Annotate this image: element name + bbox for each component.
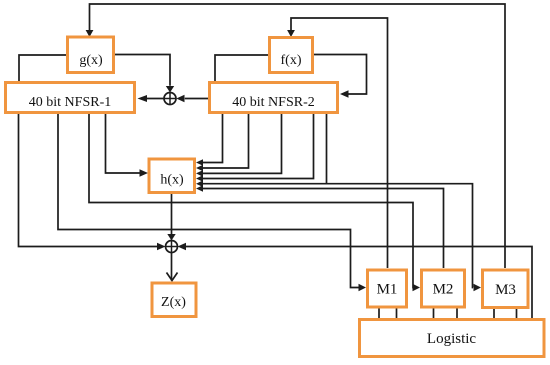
box M3 [483, 270, 529, 308]
arrowhead into h(x) right 1 [196, 159, 203, 166]
arrowhead into h(x) right 4 [196, 175, 203, 182]
svg-text:M2: M2 [433, 282, 454, 298]
wire g(x) left to NFSR-1 top [19, 55, 67, 81]
wire M1 leg 1 [378, 308, 380, 318]
arrowhead into XOR2 left [157, 243, 166, 250]
XOR1 plus [164, 93, 176, 105]
arrowhead into NFSR-2 right [340, 90, 349, 97]
wire XOR1 to NFSR-1 right [147, 98, 165, 100]
arrowhead into M1 left [359, 284, 367, 291]
XOR1 circle [164, 93, 176, 105]
arrowhead into h(x) right 2 [196, 165, 203, 172]
arrowhead into f(x) top [287, 30, 295, 37]
arrowhead into h(x) left [140, 169, 149, 176]
arrowhead open V into Z(x) top [167, 273, 178, 281]
wire XOR2 to Z(x) top [171, 253, 173, 281]
box M2 [422, 270, 465, 307]
wire f(x) left to NFSR-2 top [215, 55, 268, 81]
svg-text:Logistic: Logistic [427, 331, 477, 347]
svg-text:40 bit NFSR-1: 40 bit NFSR-1 [29, 95, 111, 110]
wire NFSR-2 tap 5 to h(x) and M3 left [202, 114, 327, 184]
box Z(x) [152, 283, 196, 317]
wire second loop M1 to f(x) [291, 18, 388, 268]
box 40 bit NFSR-2 [210, 83, 338, 113]
box f(x) [270, 38, 313, 73]
wire M3 leg 2 [516, 309, 518, 318]
wire top loop M3 to g(x) [90, 4, 506, 268]
box h(x) [149, 159, 195, 193]
wire f(x) right to NFSR-2 right [313, 55, 367, 95]
arrowhead into g(x) top [86, 30, 94, 37]
wire h(x) bottom to XOR2 top [171, 194, 173, 235]
arrowhead into M2 left [413, 284, 421, 291]
box Logistic [360, 320, 545, 357]
wire h(x) input line to M2 top [202, 189, 444, 269]
box 40 bit NFSR-1 [6, 83, 135, 113]
wire M2 leg 1 [433, 308, 435, 318]
arrowhead into XOR2 right [178, 243, 187, 250]
wire NFSR-2 tap 2 to h(x) [202, 114, 249, 168]
XOR2 plus [166, 241, 178, 253]
wire NFSR-1 tap 1 to XOR2 left [19, 114, 158, 247]
arrowhead into XOR1 right [176, 95, 184, 102]
arrowhead into h(x) right 6 [196, 185, 203, 192]
arrowhead into XOR2 top [167, 234, 175, 241]
arrowhead into h(x) right 3 [196, 170, 203, 177]
svg-text:M3: M3 [495, 282, 516, 298]
svg-text:h(x): h(x) [160, 173, 184, 188]
wire NFSR-2 tap 4 to h(x) [202, 114, 314, 179]
wire NFSR-2 tap 1 to h(x) [202, 114, 223, 163]
wire g(x) right to XOR1 top [114, 55, 170, 86]
svg-text:M1: M1 [377, 282, 398, 298]
wire Logistic to XOR2 right [186, 247, 533, 319]
wire M1 leg 2 [396, 308, 398, 318]
svg-text:g(x): g(x) [79, 53, 103, 68]
arrowhead into NFSR-1 right [138, 95, 148, 102]
box M1 [368, 270, 407, 307]
wire NFSR-2 tap 3 to h(x) [202, 114, 282, 173]
svg-text:Z(x): Z(x) [161, 295, 186, 310]
svg-text:f(x): f(x) [281, 53, 302, 68]
XOR2 circle [166, 241, 178, 253]
wire NFSR-1 tap 3 to M2 left [89, 114, 414, 288]
arrowhead into h(x) right 5 [196, 180, 203, 187]
wire M2 leg 2 [456, 308, 458, 318]
wire NFSR-1 tap 2 to M1 left [58, 114, 359, 288]
box g(x) [68, 37, 114, 73]
wire M3 leg 1 [493, 309, 495, 318]
arrowhead into M3 left [474, 284, 482, 291]
arrowhead into XOR1 top [166, 86, 174, 93]
wire NFSR-2 left to XOR1 [185, 98, 208, 100]
svg-text:40 bit NFSR-2: 40 bit NFSR-2 [232, 95, 314, 110]
wire NFSR-1 bottom tap to h(x) left [106, 114, 141, 173]
